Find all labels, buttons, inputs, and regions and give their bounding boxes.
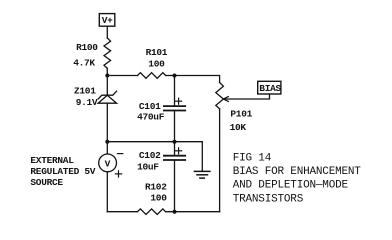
C102 polarity plus bbox=[176, 148, 182, 154]
svg-text:REGULATED 5V: REGULATED 5V bbox=[30, 166, 95, 177]
node D junction dot bbox=[173, 140, 177, 144]
wire V+ to R100 bbox=[106, 26, 108, 38]
svg-text:V: V bbox=[105, 158, 111, 169]
wire zener to node C bbox=[106, 103, 108, 142]
wire node B to P101 top corner bbox=[175, 76, 220, 83]
wire P101 bottom lead bbox=[219, 109, 221, 212]
svg-text:P101: P101 bbox=[230, 108, 252, 119]
resistor R101 bbox=[138, 73, 166, 79]
wire node A to zener bbox=[106, 76, 108, 96]
svg-text:BIAS FOR ENHANCEMENT: BIAS FOR ENHANCEMENT bbox=[233, 166, 362, 178]
wire node A to R101 bbox=[107, 75, 137, 77]
source plus sign bbox=[115, 171, 121, 177]
svg-text:FIG 14: FIG 14 bbox=[233, 153, 272, 165]
bottom rail right of R102 bbox=[166, 211, 220, 213]
zener diode Z101 cathode bar bbox=[98, 91, 116, 99]
svg-text:SOURCE: SOURCE bbox=[30, 177, 63, 188]
potentiometer P101 bbox=[216, 83, 224, 109]
wire wiper to BIAS bbox=[226, 94, 270, 99]
svg-text:10K: 10K bbox=[230, 122, 247, 133]
svg-text:9.1V: 9.1V bbox=[76, 97, 98, 108]
resistor R102 bbox=[138, 209, 166, 215]
svg-text:Z101: Z101 bbox=[74, 86, 96, 97]
wire source to bottom rail bbox=[106, 172, 108, 212]
node A junction dot bbox=[105, 74, 109, 78]
node B junction dot bbox=[173, 74, 177, 78]
svg-text:R101: R101 bbox=[146, 47, 168, 58]
node E junction dot bbox=[173, 210, 177, 214]
svg-text:4.7K: 4.7K bbox=[73, 57, 95, 68]
wire node D to C102 bbox=[174, 142, 176, 156]
svg-text:R100: R100 bbox=[76, 42, 98, 53]
svg-text:10uF: 10uF bbox=[137, 162, 159, 173]
svg-text:V+: V+ bbox=[102, 15, 113, 26]
wire node B to C101 bbox=[174, 76, 176, 107]
svg-text:TRANSISTORS: TRANSISTORS bbox=[233, 193, 304, 205]
wire C102 to node E bbox=[174, 160, 176, 212]
source minus sign bbox=[118, 153, 123, 155]
svg-text:R102: R102 bbox=[145, 182, 167, 193]
svg-text:AND DEPLETION—MODE: AND DEPLETION—MODE bbox=[233, 180, 349, 192]
zener diode Z101 triangle bbox=[98, 95, 117, 103]
voltage source V circle bbox=[99, 154, 117, 172]
C101 polarity plus bbox=[176, 98, 182, 104]
svg-text:EXTERNAL: EXTERNAL bbox=[30, 155, 74, 166]
svg-text:100: 100 bbox=[148, 58, 165, 69]
svg-text:BIAS: BIAS bbox=[259, 83, 281, 94]
ground symbol bbox=[194, 171, 210, 178]
net label V+ box bbox=[99, 14, 115, 27]
bottom rail left of R102 bbox=[107, 211, 137, 213]
svg-text:100: 100 bbox=[150, 192, 167, 203]
wire R101 to node B bbox=[166, 75, 175, 77]
wire R100 to node A bbox=[106, 68, 108, 75]
net label BIAS box bbox=[258, 81, 281, 94]
capacitor C102 plates bbox=[164, 156, 185, 160]
node C junction dot bbox=[105, 140, 109, 144]
wire node C to source bbox=[106, 142, 108, 154]
P101 wiper arrow bbox=[223, 97, 228, 102]
resistor R100 bbox=[104, 38, 111, 68]
capacitor C101 plates bbox=[164, 106, 185, 110]
wire mid rail node C to ground corner bbox=[107, 142, 202, 172]
svg-text:470uF: 470uF bbox=[137, 112, 165, 123]
wire C101 to node D bbox=[174, 111, 176, 142]
svg-text:C101: C101 bbox=[139, 101, 161, 112]
svg-text:C102: C102 bbox=[139, 150, 161, 161]
